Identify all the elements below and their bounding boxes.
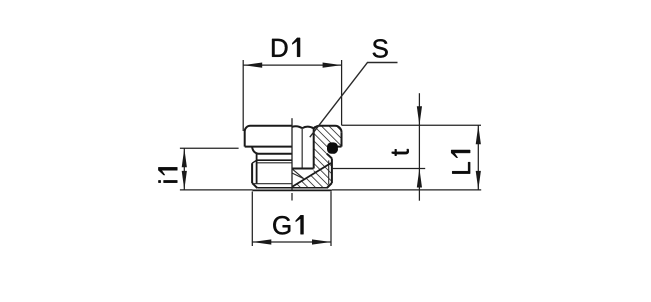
runout wedge line 1 (292, 169, 304, 179)
t arrow down (417, 106, 422, 125)
i1 dimension line (183, 148, 185, 190)
head right edge (341, 133, 343, 147)
G1 arrow left (252, 239, 271, 244)
t dimension line (418, 93, 420, 201)
G1 extension left (251, 192, 253, 247)
thread runout diagonal (292, 163, 331, 187)
head top edge section half (wavy chamfer arcs) (292, 126, 342, 133)
L1 arrow up (476, 125, 481, 144)
i1 extension bottom (180, 189, 253, 191)
thread top chamfer left (252, 160, 257, 163)
D1 dimension line (243, 64, 341, 66)
undercut chamfer right (327, 154, 332, 159)
t extension top (head top level) (342, 124, 481, 126)
hatched section region (right half of plug) (292, 126, 341, 188)
label L1 (451, 150, 470, 174)
head bottom line (245, 146, 292, 148)
thread root vertical right (328, 160, 330, 184)
label G1 (273, 215, 303, 234)
head outline (view half, left) (245, 126, 292, 147)
centerline (291, 118, 293, 190)
i1 arrow up (182, 148, 187, 167)
t extension bottom (socket depth level) (332, 168, 425, 170)
body top line 1 (257, 159, 292, 161)
bottom face inner line (257, 187, 327, 189)
washer lip (left) (252, 147, 292, 154)
bottom silhouette line (253, 189, 332, 191)
socket flat bottom (292, 168, 314, 170)
bottom chamfer right (327, 183, 332, 188)
thread OD vertical right (331, 158, 333, 183)
D1 arrow left (243, 63, 262, 68)
D1 extension line right (341, 60, 343, 125)
L1/t bottom extension line (332, 189, 481, 191)
i1 extension top (180, 147, 239, 149)
G1 extension right (330, 192, 332, 247)
O-ring (327, 142, 338, 153)
thread crest vertical left (251, 163, 253, 183)
G1 dimension line (252, 241, 331, 243)
hex socket inner edge (301, 128, 303, 168)
G1 arrow right (312, 239, 331, 244)
chamfer circle line (253, 183, 292, 185)
centerline dash below (291, 193, 293, 201)
body top line 2 (257, 162, 292, 164)
head bottom right stub (337, 146, 342, 148)
neck / thread root vertical left (256, 154, 258, 184)
hex socket wall (313, 128, 315, 169)
D1 arrow right (323, 63, 342, 68)
S leader line (310, 63, 398, 138)
D1 extension line left (242, 60, 244, 131)
t arrow up (417, 169, 422, 188)
L1 arrow down (476, 171, 481, 190)
label S (373, 39, 388, 57)
label t (392, 149, 409, 156)
label i1 (158, 167, 177, 182)
L1 dimension line (477, 125, 479, 190)
bottom chamfer left (252, 183, 257, 188)
runout wedge line 2 (292, 173, 304, 179)
label D1 (272, 38, 300, 57)
i1 arrow down (182, 171, 187, 190)
